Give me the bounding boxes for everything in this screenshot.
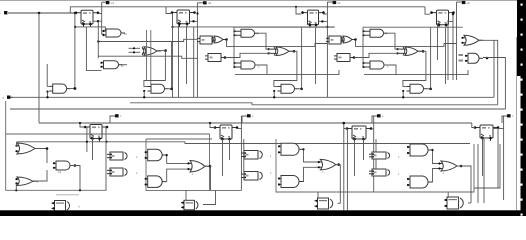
AND gate bottom c4 lower in dot b: [407, 184, 409, 186]
svg-text:o0: o0: [467, 1, 471, 5]
D flip-flop FF6 output dot: [236, 126, 239, 129]
step into FF3: [296, 7, 301, 14]
F3 out vertical: [430, 27, 432, 89]
D flip-flop FF3: [303, 10, 324, 28]
cell1 xor in dot b: [133, 51, 135, 53]
AND gate cell1 lower: [102, 61, 123, 69]
cell4 boxarc feed: [447, 192, 449, 198]
cell3 mid out dot: [422, 50, 425, 53]
c1 upper out: [35, 149, 47, 164]
cell3 boxarc feed: [317, 192, 319, 198]
cell2 frame top: [234, 26, 334, 28]
AND gate cell3 upper: [363, 29, 387, 37]
F1 out dot: [170, 88, 173, 91]
input pin clk: [4, 11, 7, 14]
gate bottom c1 OUT: [52, 201, 70, 212]
D flip-flop FF3 bottom dot 2: [315, 24, 318, 27]
D flip-flop FF1 output dot: [97, 12, 100, 15]
AND gate feedback F0: [49, 84, 70, 93]
c4 lower out: [432, 169, 439, 183]
c4 mid out: [457, 166, 471, 203]
wire pin d to bus: [10, 96, 13, 98]
FF4 out junction: [452, 13, 454, 15]
column under FF4 a: [437, 25, 439, 60]
OR gate bottom c4 mid in dot b: [438, 167, 440, 169]
AND gate top cell1 upper: [104, 29, 126, 37]
D flip-flop FF4 output dot: [452, 11, 455, 14]
D flip-flop FF3 bottom dot 1: [309, 24, 312, 27]
wire p3 link: [327, 1, 332, 3]
wire FF4 out col: [452, 14, 454, 80]
D flip-flop FF6 bottom dot 1: [221, 138, 224, 141]
rail FF5 dot b: [105, 141, 107, 143]
XOR gate cell3 mid in dot a: [396, 48, 398, 50]
D flip-flop FF7: [347, 126, 371, 142]
D flip-flop FF1 bottom dot 1: [82, 23, 85, 26]
gate bottom c2 OUT in dot b: [182, 206, 184, 208]
OR gate bottom c4 mid: [439, 161, 461, 171]
XOR gate cell3 mid in dot b: [396, 52, 398, 54]
cell1 big loop top: [6, 134, 210, 190]
IEC gate cell2 B: [205, 54, 224, 62]
c3 lower out: [303, 167, 318, 181]
c1 upper out dot: [46, 147, 49, 150]
svg-text:xor: xor: [58, 171, 62, 174]
AND gate cell4 lower in dot a: [465, 55, 467, 57]
cell2 frame feed vertical: [233, 27, 235, 67]
F0 bus junction: [46, 96, 48, 98]
rail FF5 dot a: [86, 141, 88, 143]
F3 bus tap: [402, 91, 404, 97]
F1 feedback wire: [144, 51, 166, 87]
IEC gate cell3 A: [326, 36, 344, 44]
FF1 second tap: [93, 20, 102, 22]
gate bottom c4 OUT in dot b: [445, 205, 447, 207]
input pin d: [7, 96, 10, 99]
AND gate cell2 lower in dot a: [233, 62, 235, 64]
AND gate bottom c1 mid: [54, 161, 74, 170]
D flip-flop FF7 input dot: [346, 127, 349, 130]
cell3 long wire y46: [356, 40, 457, 47]
cell1 xor stub b: [129, 51, 141, 53]
svg-text:o3: o3: [111, 1, 115, 5]
wire p4 link: [457, 1, 462, 3]
cell3 wire andT out down to xor: [384, 33, 401, 49]
F1 bus tap: [143, 91, 145, 97]
column FF8 out: [497, 129, 499, 189]
AND gate cell2 upper in dot a: [233, 30, 235, 32]
IEC gate bottom c3 A: [369, 152, 390, 159]
FF2 input drop: [172, 14, 174, 98]
under FF1 vertical b: [97, 21, 99, 58]
OR gate bottom c1 upper in dot b: [15, 150, 17, 152]
F1 bus junction: [143, 96, 145, 98]
F3 feedback wire: [403, 51, 426, 87]
bus wire y143 stepped: [17, 142, 470, 144]
gate bottom c3 OUT in dot b: [315, 205, 317, 207]
p1 vertical: [102, 2, 104, 34]
c1 mid out: [70, 166, 80, 191]
cell3 boxB out wire: [354, 53, 400, 57]
F2 input a stub: [274, 86, 278, 88]
OR gate bottom c3 mid: [318, 159, 340, 170]
column x478: [477, 144, 479, 203]
column under FF2 a: [178, 24, 180, 97]
junction FF7 feed: [343, 122, 346, 125]
FF2 rail junction: [171, 26, 173, 28]
cell3 wire xor out: [418, 50, 426, 52]
OR gate cell4 upper: [462, 35, 483, 45]
AND gate top cell1 upper in dot a: [102, 30, 104, 32]
gate bottom c1 OUT in dot b: [52, 207, 54, 209]
bottom row output pin p q1b: [377, 114, 381, 117]
vertical clock feed: [38, 13, 40, 123]
c2 lower out: [166, 169, 188, 182]
cell2 boxarc feed: [185, 190, 187, 200]
OR gate bottom c2 mid in dot a: [187, 162, 189, 164]
clock wire from input pin 1: [8, 12, 76, 14]
IEC gate bottom c2 A: [241, 151, 262, 160]
cell4 lower out dot: [486, 57, 489, 60]
column x347 to bar: [346, 129, 348, 211]
OR gate bottom c1 lower in dot b: [15, 182, 17, 184]
junction FF5 feed: [79, 122, 81, 124]
top distribution wire: [70, 7, 425, 13]
FF1 out to p1 vertical: [98, 13, 102, 15]
OR gate bottom c4 mid in dot a: [438, 162, 440, 164]
cell1 lower out: [119, 64, 128, 66]
D flip-flop FF5 output dot: [106, 126, 109, 129]
cell1 xor in dot a: [133, 47, 135, 49]
AND gate cell4 lower in dot b: [465, 60, 467, 62]
step into FF2: [166, 7, 171, 14]
c1 mid out dot: [74, 164, 77, 167]
gate bottom c4 OUT: [444, 197, 463, 209]
IEC gate bottom c2 B: [241, 172, 262, 181]
cell3 big loop: [276, 139, 474, 192]
F1 input a stub: [144, 86, 148, 88]
AND gate cell1 lower in dot a: [100, 62, 102, 64]
c3 out wire: [338, 202, 341, 204]
step into FF4: [425, 7, 430, 14]
c4 out wire: [468, 202, 471, 204]
cell4 lower out: [483, 58, 505, 110]
FF8 out to x503: [493, 128, 504, 130]
cell4 input tag b: [459, 60, 464, 62]
FF2 second tap: [189, 20, 197, 22]
F1 out vertical: [171, 42, 173, 89]
right vertical x494: [493, 40, 495, 97]
cell4 upper out: [479, 40, 498, 105]
OR gate bottom c3 mid in dot a: [318, 161, 320, 163]
step to FF8 in: [472, 123, 475, 128]
gate bottom c2 OUT in dot a: [182, 202, 184, 204]
wire p2 link: [197, 2, 203, 4]
c4 mid out dot: [460, 165, 463, 168]
c2 out wire: [203, 190, 216, 204]
cell1 wire La: [98, 39, 197, 41]
cell1 xor out wire: [157, 50, 165, 52]
D flip-flop FF5 bottom dot 1: [91, 137, 94, 140]
p3 vertical: [326, 2, 328, 97]
OR gate bottom c1 upper: [16, 143, 39, 154]
AND gate bottom c4 lower in dot a: [407, 178, 409, 180]
bottom row output pin p q2b: [247, 114, 251, 117]
AND gate bottom c1 mid in dot a: [53, 162, 55, 164]
cell2 B out dot: [224, 56, 227, 59]
D flip-flop FF6 input dot: [214, 126, 217, 129]
cell1 mid out dot: [164, 49, 167, 52]
XOR gate cell3 mid: [397, 47, 422, 56]
AND gate cell4 lower: [466, 53, 483, 63]
F0 bus tap: [47, 92, 49, 98]
AND gate bottom c2 lower: [146, 176, 167, 188]
top window border: [0, 0, 526, 2]
XOR gate cell2 A2: [212, 36, 227, 43]
F2 in dot b: [273, 90, 275, 92]
AND gate bottom c4 upper in dot a: [407, 146, 409, 148]
XOR gate cell2 mid: [268, 47, 293, 56]
FF6 out link: [237, 128, 241, 130]
FF3 tap dot: [321, 20, 323, 22]
AND gate feedback F2: [278, 84, 299, 93]
FF4 second tap: [448, 20, 453, 22]
F2 out dot: [300, 88, 303, 91]
D flip-flop FF2 bottom dot 1: [178, 23, 181, 26]
c3 mid out: [336, 164, 341, 166]
bus wire y123 clock distribution: [39, 122, 472, 124]
AND gate cell2 upper: [234, 29, 258, 37]
column x244: [243, 139, 245, 172]
cell1 xor stub a: [129, 47, 141, 49]
cell1 loop junction: [15, 189, 17, 191]
D flip-flop FF2: [172, 10, 195, 27]
c1 label underline: [56, 194, 79, 196]
F0 rail junction: [74, 26, 76, 28]
cell2 wire xor out: [289, 50, 297, 52]
FF2 out junction: [196, 12, 198, 14]
wire FF3 out to col: [323, 13, 327, 15]
D flip-flop FF1 input dot: [75, 12, 78, 15]
cell3 wire y74: [364, 70, 468, 75]
IEC gate cell3 B: [334, 54, 353, 62]
AND gate cell2 lower in dot b: [233, 66, 235, 68]
gate bottom c3 OUT: [315, 198, 333, 209]
vertical x146: [146, 30, 148, 81]
F1 out wire: [169, 88, 172, 90]
c4 upper out dot: [431, 149, 433, 151]
step to FF5 in: [80, 123, 85, 127]
IEC gate cell2 A: [197, 36, 215, 44]
AND gate bottom c4 upper in dot b: [407, 152, 409, 154]
step to FF6 in: [210, 123, 215, 128]
right bar notches: [521, 4, 523, 6]
bottom row output pin p q3b: [115, 114, 119, 117]
FF3 second tap: [318, 20, 327, 22]
D flip-flop FF6: [215, 125, 237, 142]
F2 out wire: [299, 88, 302, 90]
column under FF6 b: [229, 139, 231, 160]
IEC gate bottom c3 B: [369, 169, 390, 176]
junction FF6 feed: [209, 122, 211, 124]
output pin q1: [333, 1, 337, 4]
F3 in dot b: [402, 90, 404, 92]
AND gate bottom c2 lower in dot b: [145, 183, 147, 185]
right vertical x516: [516, 37, 518, 212]
cell2 A2 out dot: [225, 38, 228, 41]
AND gate top cell1 upper in dot b: [102, 34, 104, 36]
under FF1 vertical a: [86, 27, 101, 71]
column under FF7 a: [354, 139, 356, 176]
AND gate bottom c2 upper: [146, 149, 167, 161]
svg-text:o1: o1: [338, 1, 342, 5]
junction on clock wire: [38, 12, 41, 15]
OR gate bottom c1 lower: [16, 177, 37, 186]
bottom row output pin p q0b: [507, 114, 511, 117]
cell2 big loop top: [146, 138, 212, 140]
OR gate cell4 upper in dot b: [461, 42, 463, 44]
cell2 mid out dot: [293, 50, 296, 53]
cell1 big loop: [6, 101, 107, 190]
column under FF5 a: [86, 127, 88, 152]
svg-text:o2: o2: [208, 1, 212, 5]
bus wire y97 from input d2: [10, 96, 494, 98]
D flip-flop FF3 input dot: [301, 11, 304, 14]
F0 in a vertical: [47, 64, 49, 86]
OR gate bottom c2 mid in dot b: [187, 168, 189, 170]
p q1b elbow: [372, 116, 377, 123]
D flip-flop FF5 input dot: [84, 126, 87, 129]
AND gate bottom c4 upper: [408, 144, 432, 156]
wire p1 link: [102, 1, 106, 3]
OR gate bottom c2 mid: [188, 161, 209, 173]
XOR gate cell2 mid in dot b: [267, 52, 269, 54]
AND gate bottom c4 lower: [408, 176, 432, 188]
D flip-flop FF7 bottom dot 1: [353, 138, 356, 141]
column x373: [373, 116, 375, 192]
column under FF3 b: [315, 28, 317, 84]
c1 mid out loop junction: [79, 189, 81, 191]
column x484: [483, 139, 485, 203]
cell3 A2 out dot: [354, 38, 357, 41]
OR gate cell4 upper in dot a: [461, 37, 463, 39]
column under FF5 b: [92, 139, 94, 161]
c3 upper out: [303, 149, 318, 162]
AND gate bottom c3 upper in dot b: [278, 151, 280, 153]
AND gate cell3 upper in dot a: [362, 30, 364, 32]
D flip-flop FF8 bottom dot 2: [489, 137, 492, 140]
D flip-flop FF4 bottom dot 2: [445, 24, 448, 27]
cell2 wire low out: [255, 65, 267, 75]
AND gate bottom c2 upper in dot a: [145, 151, 147, 153]
AND gate feedback F3: [407, 84, 428, 93]
cell3 frame top: [363, 26, 463, 28]
cell3 wire low out: [384, 65, 396, 75]
vertical x151: [150, 30, 152, 84]
OR gate bottom c1 lower in dot a: [15, 178, 17, 180]
AND gate feedback F1: [148, 84, 169, 93]
wire x500 step: [474, 144, 500, 188]
AND gate bottom c3 upper in dot a: [278, 145, 280, 147]
D flip-flop FF4 bottom dot 1: [438, 24, 441, 27]
D flip-flop FF5: [85, 125, 107, 142]
cell2 wire y74: [235, 70, 339, 75]
D flip-flop FF6 bottom dot 2: [228, 138, 231, 141]
right black bar thumb: [517, 0, 523, 76]
F0 in dot b: [46, 91, 48, 93]
F3 out dot: [429, 88, 432, 91]
cell2 big loop: [146, 139, 241, 190]
F3 out wire: [428, 88, 431, 90]
FF1 tap dot: [97, 20, 99, 22]
c3 mid out dot: [337, 163, 340, 166]
column x241: [240, 116, 242, 190]
cell2 wire andT out down to xor: [255, 33, 272, 49]
F0 out dot: [74, 87, 77, 90]
c1 upper in tap: [16, 142, 18, 147]
AND gate bottom c2 upper in dot b: [145, 157, 147, 159]
wire p4b col: [456, 2, 458, 80]
p q0b elbow: [502, 116, 507, 123]
column under FF4 b: [445, 28, 447, 84]
gate bottom c2 OUT: [181, 200, 198, 210]
D flip-flop FF4 input dot: [430, 11, 433, 14]
output pin q0: [462, 1, 466, 4]
AND gate cell3 lower in dot a: [362, 62, 364, 64]
p q2b elbow: [242, 116, 247, 123]
F2 out vertical: [301, 27, 303, 89]
junction clock at F0 output column: [74, 12, 77, 15]
FF2 tap dot: [192, 20, 194, 22]
FF3 rail junction: [326, 26, 328, 28]
D flip-flop FF1 bottom dot 2: [89, 23, 92, 26]
cell2 long wire y46: [227, 40, 328, 47]
gate bottom c1 OUT in dot a: [52, 202, 54, 204]
cell1 wire Lb: [98, 56, 197, 58]
D flip-flop FF8 bottom dot 1: [481, 137, 484, 140]
c3 out column: [339, 164, 341, 203]
column under FF2 b: [186, 27, 188, 84]
c2 upper out: [166, 155, 188, 163]
XOR gate cell3 A2: [341, 36, 356, 43]
cell2 boxB out wire: [225, 53, 271, 57]
p q3b elbow: [110, 116, 115, 123]
column x376: [375, 139, 377, 172]
F1 in dot b: [143, 90, 145, 92]
D flip-flop FF4: [432, 10, 454, 28]
F3 input a stub: [403, 86, 407, 88]
F2 bus junction: [273, 96, 275, 98]
bus wire y104 stepped: [130, 103, 498, 105]
column x503: [503, 116, 505, 200]
OR gate bottom c1 upper in dot a: [15, 145, 17, 147]
c3 upper out dot: [302, 148, 304, 150]
cell4 input tag a: [459, 54, 464, 56]
column x193: [193, 27, 195, 97]
F0 out wire: [71, 88, 75, 90]
AND gate bottom c1 mid in dot b: [53, 167, 55, 169]
junction top wire FF3 feed: [295, 6, 297, 8]
D flip-flop FF3 output dot: [322, 11, 325, 14]
F2 bus tap: [273, 91, 275, 97]
AND gate cell2 upper in dot b: [233, 34, 235, 36]
column under FF6 a: [222, 139, 224, 176]
D flip-flop FF5 bottom dot 2: [98, 137, 101, 140]
gate bottom c4 OUT in dot a: [445, 199, 447, 201]
D flip-flop FF7 output dot: [370, 127, 373, 130]
cell3 B out dot: [353, 56, 356, 59]
OR gate bottom c3 mid in dot b: [318, 166, 320, 168]
